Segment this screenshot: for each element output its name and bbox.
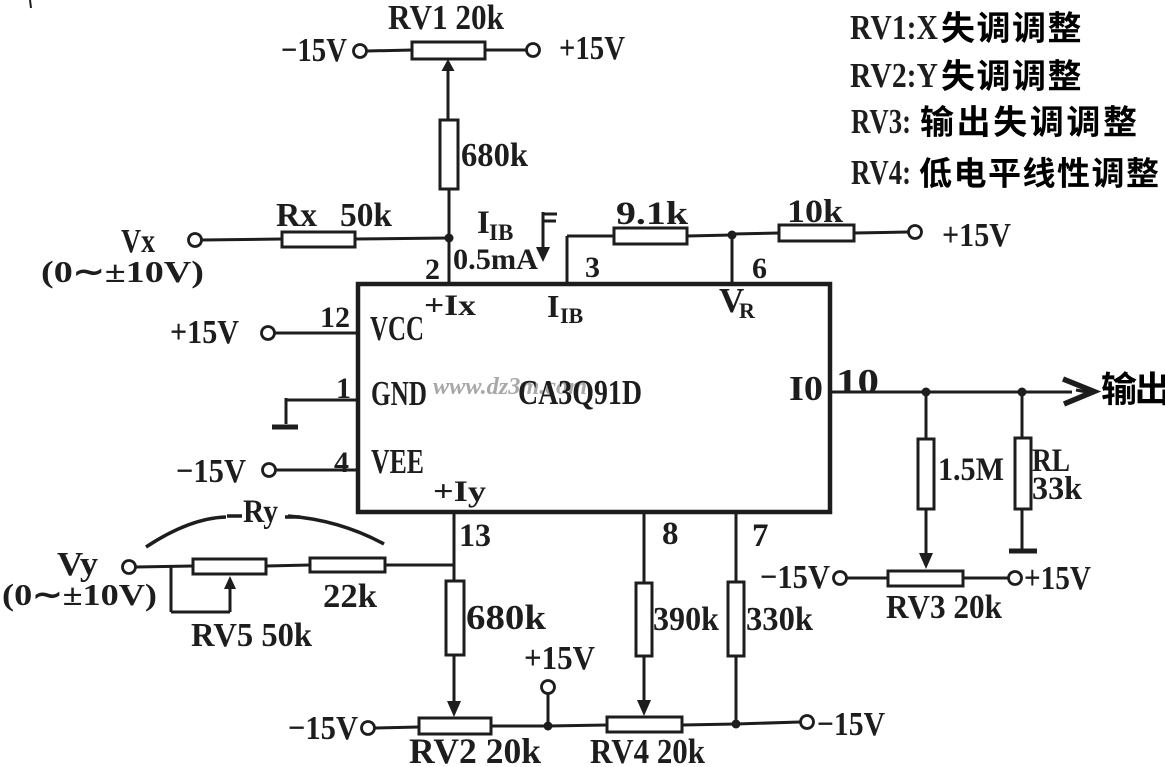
svg-text:+15V: +15V <box>1024 560 1091 597</box>
terminal Vx <box>189 234 202 247</box>
wire pin 6 <box>731 235 734 284</box>
wire RV5 loop <box>170 566 173 612</box>
resistor 10k <box>779 225 854 241</box>
svg-text:680k: 680k <box>461 137 528 174</box>
svg-text:8: 8 <box>662 516 679 552</box>
terminal -15V right <box>801 716 814 729</box>
wire pin 8 <box>643 512 646 583</box>
speck <box>30 0 31 8</box>
potentiometer RV1 <box>412 42 485 59</box>
terminal Vy <box>123 561 136 574</box>
svg-text:33k: 33k <box>1032 471 1083 507</box>
op-amp IC U1 CA3091D body <box>358 284 830 512</box>
node pin2 junction <box>445 234 454 243</box>
svg-text:−15V: −15V <box>817 706 885 743</box>
potentiometer RV2 <box>419 718 491 734</box>
wire <box>485 49 526 52</box>
wire <box>266 565 310 566</box>
resistor 22k <box>310 558 385 572</box>
svg-text:4: 4 <box>334 446 349 479</box>
wire pin 3 <box>566 236 569 284</box>
wire <box>1021 509 1024 549</box>
svg-text:GND: GND <box>371 374 427 413</box>
current arrow IIB <box>542 212 545 250</box>
wire <box>548 725 607 726</box>
svg-text:VCC: VCC <box>370 309 424 348</box>
svg-text:10k: 10k <box>787 194 844 230</box>
label 输出 <box>1102 371 1137 405</box>
potentiometer RV5 <box>193 559 266 574</box>
RV5 wiper arrow <box>229 582 232 612</box>
wire <box>491 725 548 728</box>
svg-text:−15V: −15V <box>281 32 347 69</box>
svg-text:IB: IB <box>560 303 584 328</box>
wire pin 4 <box>276 469 358 472</box>
resistor 680k (upper) <box>440 120 458 189</box>
terminal -15V (RV1 left) <box>354 45 367 58</box>
terminal +15V <box>909 226 922 239</box>
svg-text:1.5M: 1.5M <box>938 452 1004 488</box>
wire <box>735 656 738 724</box>
wire <box>355 238 449 239</box>
potentiometer RV3 <box>888 571 963 586</box>
node output 1 <box>922 388 931 397</box>
svg-text:0.5mA: 0.5mA <box>453 243 538 276</box>
svg-text:RV4:: RV4: <box>851 153 911 192</box>
terminal -15V RV3 <box>834 572 847 585</box>
terminal +15V (RV1 right) <box>527 44 540 57</box>
Ry brace <box>146 517 226 547</box>
resistor 680k (lower) <box>446 581 464 655</box>
wire <box>367 50 413 51</box>
resistor 390k <box>636 583 652 656</box>
svg-text:−15V: −15V <box>760 559 830 596</box>
wire pin 12 <box>275 332 358 335</box>
svg-text:2: 2 <box>425 253 440 286</box>
svg-text:+15V: +15V <box>559 30 625 67</box>
svg-text:390k: 390k <box>653 601 719 638</box>
terminal +15V pin12 <box>262 327 275 340</box>
svg-text:330k: 330k <box>746 601 813 638</box>
terminal +15V mid <box>542 681 555 694</box>
svg-text:+Ix: +Ix <box>424 289 476 322</box>
svg-text:(0∼±10V): (0∼±10V) <box>2 577 157 612</box>
wire pin 1 <box>286 399 358 402</box>
wire <box>736 722 800 724</box>
wire <box>1021 392 1024 438</box>
node output 2 <box>1018 388 1027 397</box>
wire output <box>830 391 1072 394</box>
svg-text:I: I <box>477 205 490 241</box>
wire <box>136 566 193 567</box>
node 330k rail <box>732 720 741 729</box>
wire pin 7 <box>735 512 738 582</box>
svg-text:10: 10 <box>836 362 879 401</box>
wire with arrow to RV2 <box>453 655 456 704</box>
wire <box>732 233 779 234</box>
svg-text:RV1 20k: RV1 20k <box>388 0 504 37</box>
RV1 wiper arrow <box>447 68 450 120</box>
svg-text:RV3:: RV3: <box>851 102 911 141</box>
resistor Rx 50k <box>282 232 355 247</box>
wire pin 2 <box>448 238 451 284</box>
node +15V stub <box>544 722 553 731</box>
svg-text:I0: I0 <box>789 369 823 408</box>
resistor 9.1k <box>614 228 687 244</box>
wire with arrow to RV3 <box>925 509 928 556</box>
svg-text:12: 12 <box>320 301 350 334</box>
wire with arrow to RV4 <box>643 656 646 703</box>
svg-text:IB: IB <box>489 220 513 245</box>
svg-text:Ry: Ry <box>243 494 278 530</box>
wire <box>385 564 454 567</box>
potentiometer RV4 <box>607 717 682 732</box>
svg-text:VEE: VEE <box>371 442 424 481</box>
wire <box>925 392 928 439</box>
node pin 6 <box>728 231 737 240</box>
svg-text:RV2:Y: RV2:Y <box>850 56 938 95</box>
svg-text:RV2 20k: RV2 20k <box>409 731 541 767</box>
svg-text:50k: 50k <box>340 197 392 234</box>
resistor RL 33k <box>1015 438 1031 509</box>
wire <box>963 577 1008 580</box>
svg-text:13: 13 <box>459 518 491 554</box>
resistor 330k <box>728 582 744 656</box>
svg-text:+Iy: +Iy <box>433 475 486 508</box>
wire <box>854 232 908 233</box>
svg-text:CA3Q91D: CA3Q91D <box>518 373 642 412</box>
svg-text:+15V: +15V <box>170 314 239 351</box>
wire <box>448 189 451 240</box>
svg-text:+15V: +15V <box>524 640 595 677</box>
svg-text:I: I <box>547 288 559 324</box>
wire <box>547 694 550 726</box>
svg-text:−15V: −15V <box>176 453 246 490</box>
svg-text:−15V: −15V <box>288 710 358 747</box>
wire <box>202 239 282 240</box>
svg-text:22k: 22k <box>323 578 377 615</box>
svg-text:7: 7 <box>752 518 769 554</box>
terminal -15V pin4 <box>263 464 276 477</box>
terminal -15V left <box>362 722 375 735</box>
svg-text:RV3 20k: RV3 20k <box>886 589 1002 626</box>
svg-text:R: R <box>739 298 756 323</box>
svg-text:(0∼±10V): (0∼±10V) <box>41 254 204 289</box>
wire <box>687 235 732 236</box>
wire pin 13 <box>453 512 456 581</box>
wire <box>375 727 419 728</box>
svg-text:3: 3 <box>585 251 600 284</box>
wire <box>847 577 888 580</box>
ground RL <box>1009 549 1037 554</box>
ground <box>272 425 298 430</box>
wire <box>682 724 736 725</box>
resistor 1.5M <box>918 439 934 509</box>
svg-text:RV5 50k: RV5 50k <box>191 617 312 654</box>
output arrow <box>1063 379 1094 404</box>
svg-text:680k: 680k <box>466 598 547 637</box>
svg-text:Rx: Rx <box>276 197 317 234</box>
svg-text:RV1:X: RV1:X <box>850 8 938 47</box>
svg-text:6: 6 <box>752 252 767 285</box>
svg-text:+15V: +15V <box>942 217 1011 254</box>
svg-text:RV4 20k: RV4 20k <box>590 732 705 767</box>
terminal +15V RV3 <box>1009 572 1022 585</box>
svg-text:9.1k: 9.1k <box>616 196 689 232</box>
